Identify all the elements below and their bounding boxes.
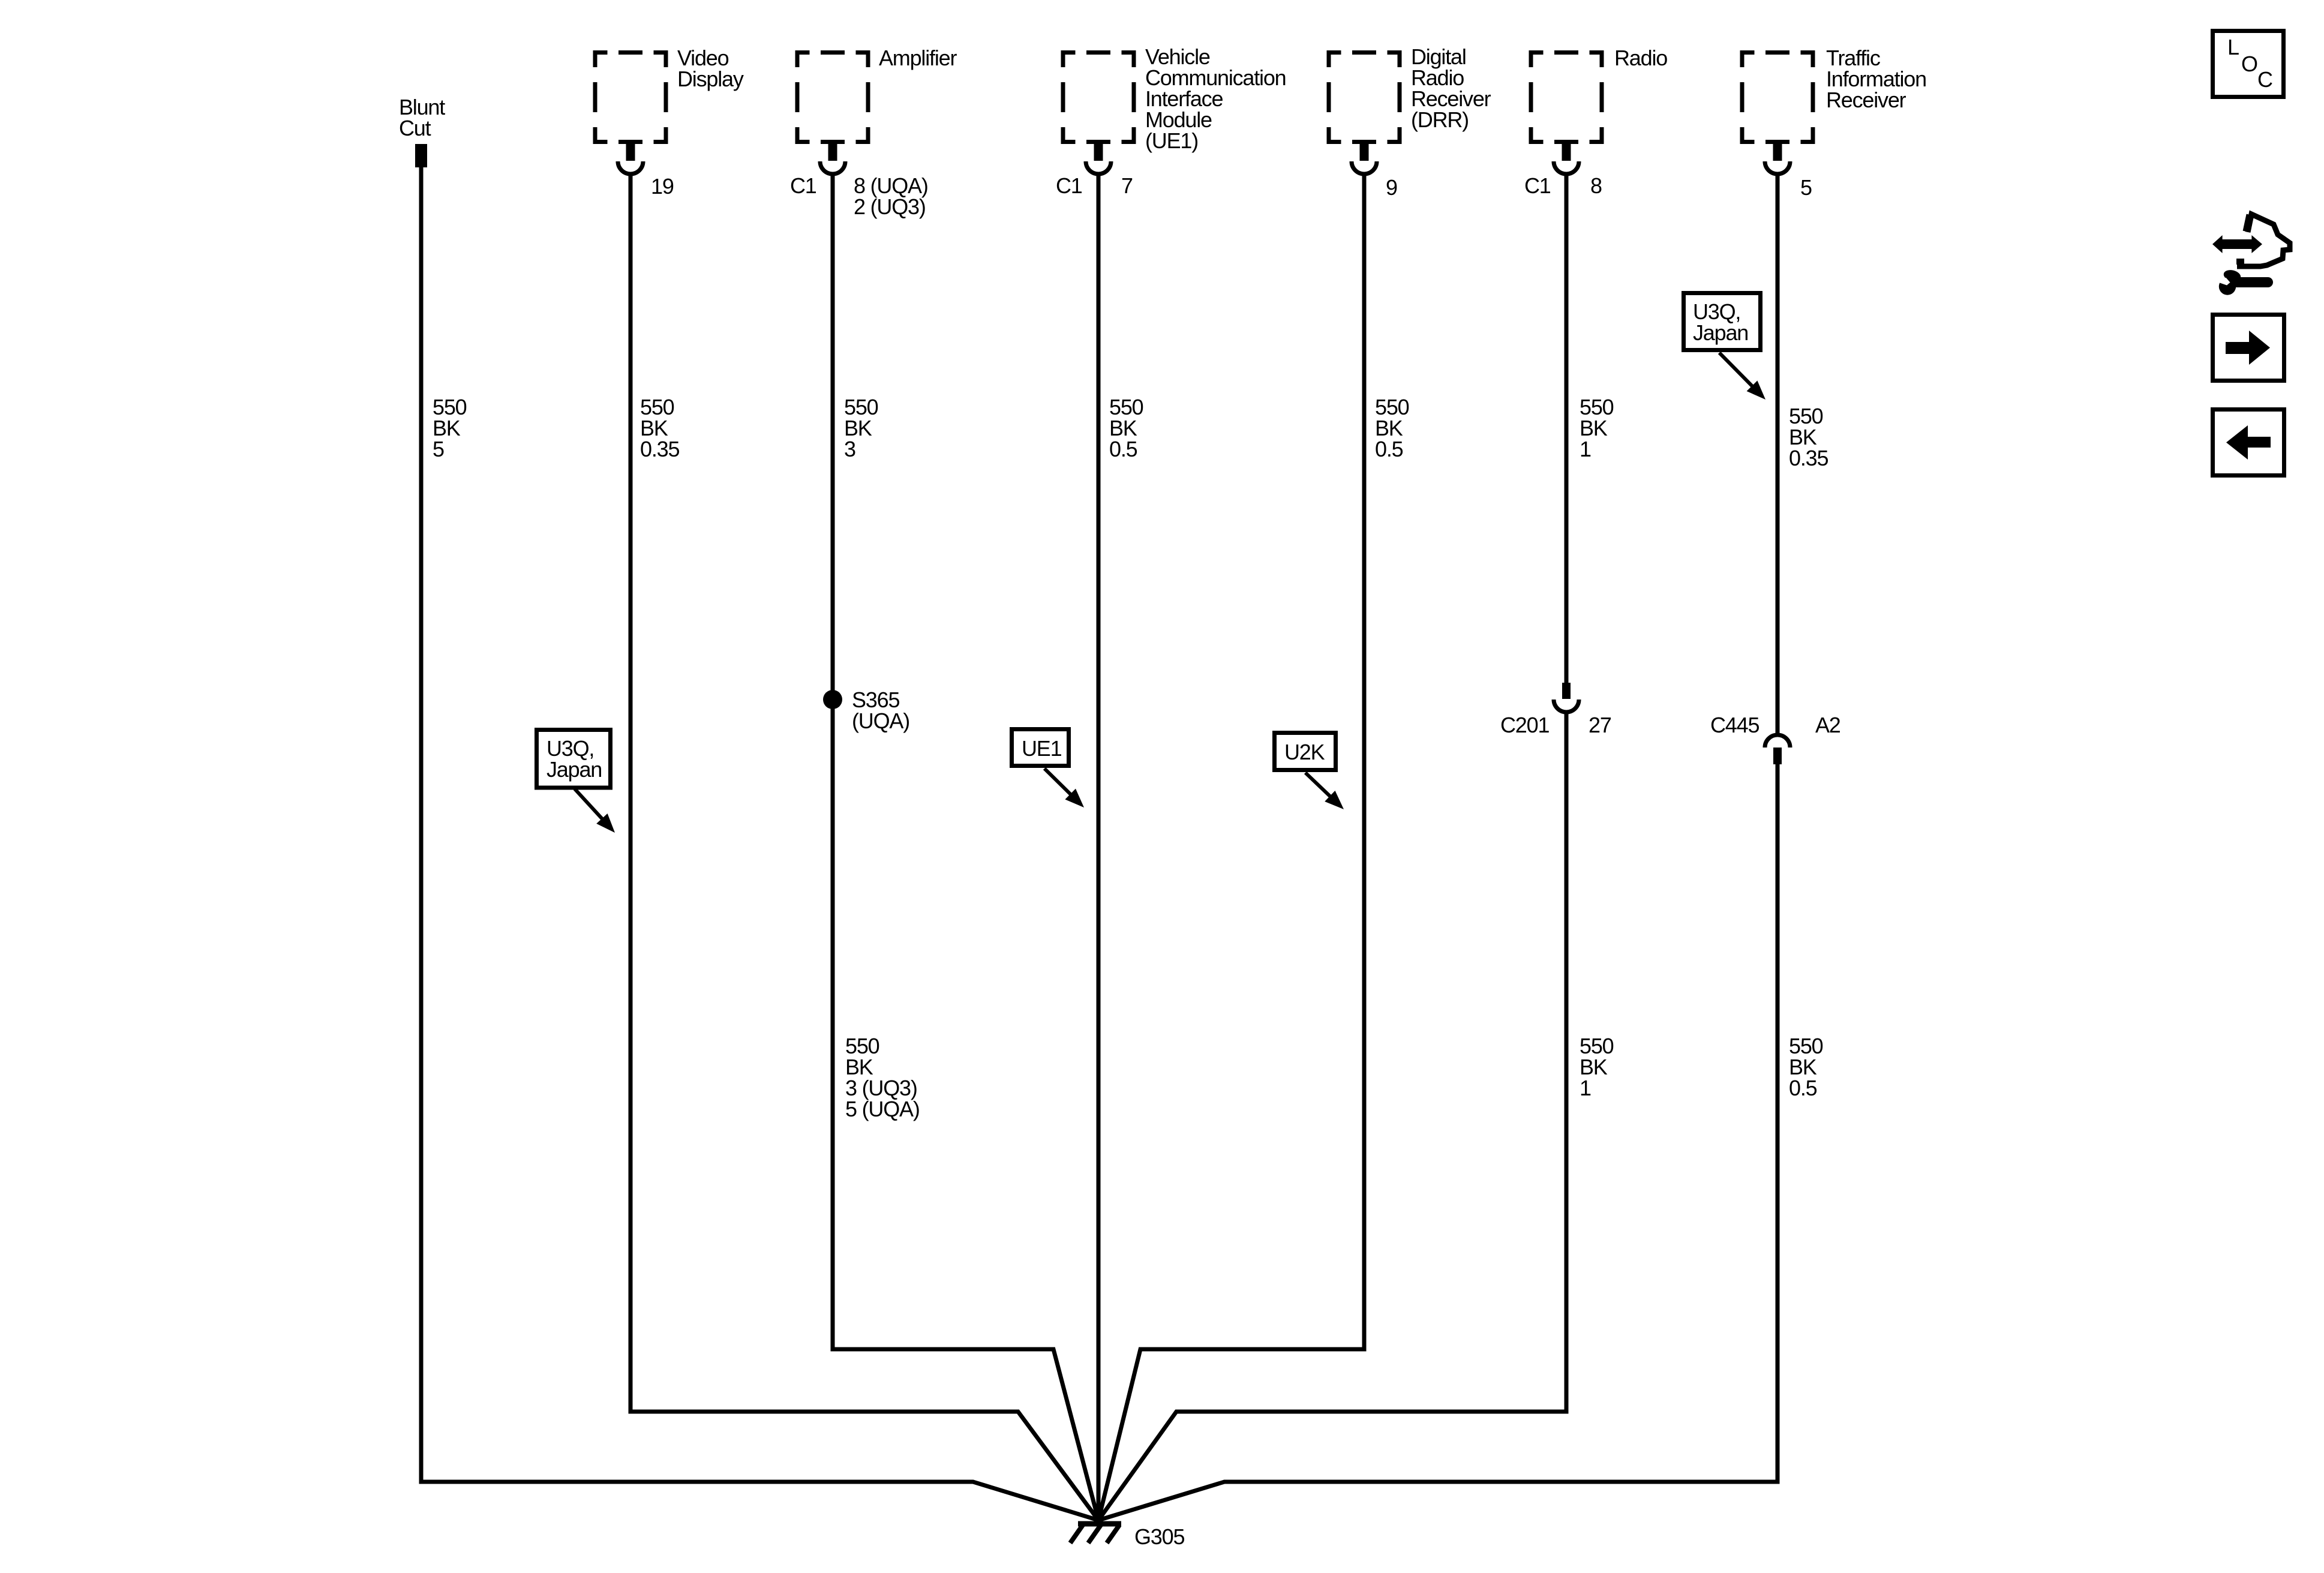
svg-text:5: 5 — [433, 437, 444, 461]
svg-text:UE1: UE1 — [1022, 736, 1062, 761]
svg-text:2 (UQ3): 2 (UQ3) — [854, 194, 926, 219]
svg-text:U2K: U2K — [1284, 740, 1325, 764]
svg-text:(UQA): (UQA) — [852, 709, 909, 733]
svg-text:C: C — [2257, 67, 2272, 92]
svg-text:7: 7 — [1121, 173, 1133, 198]
svg-text:Japan: Japan — [547, 757, 602, 782]
svg-text:C1: C1 — [1056, 173, 1082, 198]
svg-text:0.35: 0.35 — [640, 437, 679, 461]
svg-text:C445: C445 — [1710, 713, 1759, 737]
svg-text:Radio: Radio — [1614, 46, 1667, 70]
svg-text:C1: C1 — [790, 173, 816, 198]
svg-text:1: 1 — [1580, 1076, 1591, 1100]
svg-text:Japan: Japan — [1693, 320, 1748, 345]
svg-text:O: O — [2241, 52, 2257, 76]
svg-text:0.5: 0.5 — [1375, 437, 1403, 461]
svg-text:L: L — [2227, 35, 2239, 59]
svg-text:19: 19 — [651, 174, 674, 199]
svg-text:G305: G305 — [1134, 1524, 1184, 1549]
svg-text:3: 3 — [844, 437, 855, 461]
svg-text:9: 9 — [1386, 175, 1397, 200]
svg-text:1: 1 — [1580, 437, 1591, 461]
svg-text:27: 27 — [1589, 713, 1611, 737]
svg-text:Display: Display — [677, 67, 744, 91]
svg-text:(UE1): (UE1) — [1145, 128, 1198, 153]
svg-text:5 (UQA): 5 (UQA) — [845, 1097, 920, 1121]
svg-text:8: 8 — [1590, 173, 1602, 198]
svg-text:C201: C201 — [1500, 713, 1549, 737]
svg-text:Amplifier: Amplifier — [879, 46, 957, 70]
svg-text:C1: C1 — [1524, 173, 1551, 198]
svg-text:0.5: 0.5 — [1109, 437, 1137, 461]
svg-text:Cut: Cut — [399, 116, 431, 140]
svg-text:(DRR): (DRR) — [1411, 107, 1469, 132]
svg-text:0.5: 0.5 — [1789, 1076, 1817, 1100]
svg-text:0.35: 0.35 — [1789, 446, 1828, 470]
svg-text:Receiver: Receiver — [1826, 88, 1906, 112]
svg-text:A2: A2 — [1815, 713, 1840, 737]
svg-text:5: 5 — [1800, 175, 1812, 200]
